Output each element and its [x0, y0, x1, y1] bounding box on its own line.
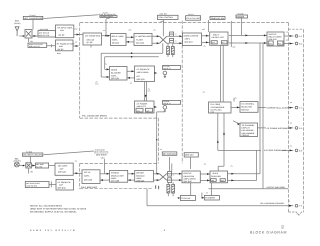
connector pin 2 [295, 42, 298, 45]
connector pin 1 [295, 35, 298, 38]
arrowhead L-K row2 [100, 179, 103, 181]
wire second drop [171, 163, 173, 171]
mic gain label LB1 [162, 152, 177, 155]
arrowhead S2-S1 row2 [127, 77, 130, 79]
svg-text:F 6: F 6 [299, 205, 302, 208]
svg-text:JACK J2: JACK J2 [163, 102, 170, 105]
svg-text:AF POWER: AF POWER [137, 102, 148, 105]
crystal filter XT2 [171, 47, 174, 55]
label box L1 antenna [23, 16, 43, 19]
wire LB1 drop [169, 157, 171, 172]
arrowhead T to jack2 [154, 106, 157, 108]
svg-text:RF SQUELCH AMP: RF SQUELCH AMP [57, 42, 75, 45]
arrowhead N to O [237, 106, 240, 108]
detector block D [183, 33, 202, 46]
wire WB2 to H2 [49, 181, 56, 187]
wire B1 to A [74, 34, 83, 36]
arrowhead BL2 pointer [202, 197, 205, 199]
svg-text:E 5: E 5 [299, 149, 302, 152]
wire O tick up [233, 98, 235, 102]
junction dot mic line [23, 165, 25, 167]
wire mic label drop [104, 159, 106, 174]
arrowhead M-crossover row1 [157, 173, 160, 175]
main unit boundary jog vertical [158, 118, 160, 163]
svg-text:Q33 Q34: Q33 Q34 [58, 187, 67, 190]
crystal filter XT1 [167, 47, 170, 55]
small relay box SB1 [25, 30, 32, 39]
svg-text:TO ANT: TO ANT [29, 14, 36, 17]
svg-text:AND SW R44: AND SW R44 [26, 185, 37, 188]
note block P [240, 123, 258, 137]
arrowheads into D [179, 35, 182, 37]
svg-text:JACK J1: JACK J1 [163, 67, 170, 70]
svg-text:AMPL DRIVE: AMPL DRIVE [184, 178, 197, 181]
mod xtal element lower [168, 178, 172, 183]
connector column outer dashed line [303, 29, 305, 212]
svg-text:D 4: D 4 [299, 127, 302, 130]
connector pin 6 [295, 204, 298, 207]
ch1 antenna change wire [147, 189, 293, 206]
svg-text:IC2: IC2 [137, 75, 140, 78]
pll synthesizer block N [209, 102, 232, 113]
svg-text:Q9 Q10: Q9 Q10 [112, 42, 119, 45]
arrowhead pin4 [290, 127, 293, 129]
wire L3 drop [30, 156, 32, 163]
junction dot A-B line [105, 35, 107, 37]
junction dot bus2 [131, 56, 133, 58]
wire crossover to xtal elements [167, 36, 170, 43]
wire B to C row 2 [126, 41, 134, 43]
bent arrow to BL2 [202, 193, 204, 198]
arrowhead S2 to jack [154, 72, 157, 74]
svg-text:BLANKER: BLANKER [111, 71, 121, 74]
wire mic to SB2 [19, 165, 26, 167]
squiggle tp marks [173, 34, 177, 175]
svg-text:AC POWER DISTRIBUTOR: AC POWER DISTRIBUTOR [267, 127, 292, 130]
wire G to K [73, 172, 82, 174]
af output block T subcell 1 [136, 108, 143, 112]
svg-text:2ND IF AMPL: 2ND IF AMPL [112, 35, 125, 38]
arrowhead into S1 lower [107, 76, 110, 78]
wire K to L row 1 [100, 173, 110, 175]
arrowhead into Q row1 [179, 173, 182, 175]
svg-text:Q37 Q38: Q37 Q38 [111, 180, 119, 183]
vertical V3 [256, 150, 258, 180]
ext sp jack symbol [163, 71, 167, 75]
output block F subcell 2 [278, 41, 284, 45]
wire WB1 to B2 [47, 44, 56, 47]
label box L6 [210, 17, 225, 20]
svg-text:AMPL: AMPL [84, 175, 90, 178]
svg-text:AF SQUELCH: AF SQUELCH [137, 68, 150, 71]
wire row O to pin 3 [258, 107, 293, 109]
arrowhead E-F row1 end [264, 34, 267, 36]
svg-text:TO PA SW: TO PA SW [181, 197, 190, 200]
svg-text:A 1: A 1 [299, 35, 302, 38]
lower unit boundary bottom edge [80, 188, 153, 190]
wire T to jack2 [154, 106, 156, 108]
arrowhead into B1 [34, 35, 37, 37]
svg-text:FIG.2 MOD UNIT: FIG.2 MOD UNIT [81, 186, 98, 189]
svg-text:Q11 Q12: Q11 Q12 [136, 42, 144, 45]
if amplifier block C [134, 34, 152, 46]
svg-text:C 3: C 3 [299, 107, 302, 110]
arrowhead into A [77, 34, 80, 36]
wire N down to R line 2 [218, 113, 224, 171]
svg-text:(FRONT): (FRONT) [14, 160, 22, 163]
crossover down to bus [162, 43, 164, 53]
svg-text:XTAL CONTROL: XTAL CONTROL [159, 16, 174, 19]
svg-text:MIC AMPL: MIC AMPL [58, 164, 68, 167]
arrowhead K-L row1 [107, 173, 110, 175]
label box L3 mic [22, 153, 42, 156]
svg-text:LOW PASS: LOW PASS [39, 28, 49, 31]
deviation block Q [182, 171, 200, 183]
af amplifier block S2 [135, 66, 155, 82]
svg-text:3RD IF: 3RD IF [213, 33, 220, 36]
svg-text:ILS PROP SURVEILLER: ILS PROP SURVEILLER [264, 149, 287, 152]
svg-text:BLOCK DIAGRAM: BLOCK DIAGRAM [250, 230, 287, 234]
pointer diagonal L1 to rf label [44, 15, 99, 19]
wire E down to N double [221, 45, 224, 102]
arrowhead into Q row2 [179, 179, 182, 181]
svg-text:Q1 Q2: Q1 Q2 [59, 33, 65, 36]
arrowhead M-crossover row2 [157, 179, 160, 181]
tp2 stub [28, 168, 30, 174]
xtal element upper [170, 32, 174, 36]
arrowhead into B [107, 35, 110, 37]
driver block M [135, 170, 154, 181]
label box mic gain WB2 [25, 182, 49, 188]
arrowhead S2-T double wire [145, 95, 147, 98]
arrowhead C-B row2 [126, 41, 129, 43]
dark tick marks left of crystals [156, 185, 159, 189]
phone jack label J2 [163, 101, 181, 105]
wire Q to R row 1 [200, 173, 210, 175]
connector pin 4 [295, 127, 298, 130]
phone jack symbol [163, 106, 167, 110]
rf output block R subcell 1 [211, 179, 217, 182]
svg-text:TO METER: TO METER [205, 197, 215, 200]
wire S2 to jack1 [155, 72, 157, 74]
svg-text:Q20 Q21: Q20 Q21 [111, 77, 119, 80]
svg-text:OUTPUT AND VIDEO: OUTPUT AND VIDEO [267, 186, 286, 189]
svg-text:Q4 Q5: Q4 Q5 [58, 48, 64, 51]
wire down to crystal filters [168, 43, 173, 57]
wire Q to R row 2 [200, 179, 210, 181]
small box SB2 [26, 163, 32, 168]
svg-text:DEVIATION: DEVIATION [184, 175, 195, 178]
wire crossover QT [160, 174, 167, 180]
wire M to crossover row 2 [153, 179, 159, 181]
svg-text:1ST MIXER OSC: 1ST MIXER OSC [85, 35, 101, 38]
svg-text:Q13 Q14: Q13 Q14 [185, 41, 194, 44]
svg-text:NOISE LIMITER: NOISE LIMITER [184, 34, 199, 37]
svg-text:CIRCUIT: CIRCUIT [242, 134, 251, 137]
bottom label BL2 [204, 196, 219, 201]
svg-text:DRIVER: DRIVER [136, 172, 144, 175]
rf output block R subcell 2 [220, 179, 225, 182]
mic gain label LB2 [184, 153, 198, 157]
svg-text:Q41 Q42: Q41 Q42 [184, 180, 192, 183]
tp1 stub [28, 38, 30, 42]
svg-text:SIS GROUND. SUPPLY 13.8V DC. N: SIS GROUND. SUPPLY 13.8V DC. NO SIGNAL. [30, 211, 78, 214]
junction dot antenna line [23, 35, 25, 37]
squelch block B2 [56, 40, 74, 51]
arrowhead into L2b [32, 165, 35, 167]
svg-text:TP2: TP2 [30, 170, 33, 173]
arrowhead pin1 [290, 35, 293, 37]
arrowhead B-C row1 [131, 36, 134, 38]
if amp ic block E [210, 32, 228, 45]
arrowhead R out row2 [231, 179, 234, 181]
svg-text:ANT. CHANGEOVER: ANT. CHANGEOVER [24, 17, 43, 20]
svg-text:Q7 Q8: Q7 Q8 [87, 41, 93, 44]
svg-text:IF LIMITER AMPL: IF LIMITER AMPL [136, 35, 153, 38]
bus corner to S1 lower [101, 53, 109, 77]
svg-text:DIMMER: DIMMER [237, 15, 245, 18]
svg-text:MOD ADJ: MOD ADJ [185, 154, 194, 157]
svg-text:B 2: B 2 [299, 43, 302, 46]
svg-text:MODULE: MODULE [136, 174, 145, 177]
svg-text:LED DRIVER: LED DRIVER [242, 129, 255, 132]
wire crossover X1 [160, 36, 167, 43]
arrowhead pin5 [290, 149, 293, 151]
wire R to V3 row [228, 179, 257, 181]
1st af block K [82, 170, 100, 184]
unexplained vertical right of E [230, 21, 232, 47]
svg-text:TO CHANNEL: TO CHANNEL [241, 103, 255, 106]
crystal XB1 [167, 185, 170, 194]
arrowhead E-F row2 mid [245, 42, 248, 44]
wire L2b to G [49, 165, 55, 167]
pointer diagonal L3 [44, 151, 94, 155]
svg-text:NOISE: NOISE [111, 68, 118, 71]
long vertical V1 [259, 43, 261, 174]
crystal XB2 [172, 185, 175, 194]
svg-text:CH.1 ANTENNA CHANGE: CH.1 ANTENNA CHANGE [260, 202, 284, 205]
svg-text:SYNTHESIZER: SYNTHESIZER [211, 106, 225, 109]
wire L4 drop to crossover [162, 20, 164, 37]
arrowhead BL1 pointer [178, 197, 181, 199]
svg-text:AM DET AGC: AM DET AGC [212, 36, 225, 39]
arrowhead Q-R row1 [207, 173, 210, 175]
svg-text:AMPL: AMPL [185, 38, 191, 41]
wire L to M row 2 [128, 179, 135, 181]
svg-text:MIX B: MIX B [213, 172, 219, 175]
wire down to mod crystals [168, 182, 173, 196]
pll unit boundary vertical x182 [181, 21, 183, 164]
wire output and video row [209, 188, 289, 190]
microphone symbol [14, 162, 19, 167]
svg-text:DISPLAY: DISPLAY [242, 127, 251, 130]
wire B2 stub [73, 45, 79, 47]
wire S1 to S2 row 1 [127, 70, 135, 72]
main unit boundary right edge [288, 23, 290, 212]
connector pin 3 [295, 106, 298, 109]
svg-text:FIG.3 PLL UNIT: FIG.3 PLL UNIT [186, 17, 201, 20]
wire N down to pin row [217, 113, 219, 150]
arrowhead ch1 line [289, 205, 292, 207]
arrowhead N-R line2 up [223, 132, 225, 135]
wire SB2 to L2b [31, 165, 35, 167]
svg-text:Q18 Q19: Q18 Q19 [269, 38, 277, 41]
svg-text:ANT MATCH: ANT MATCH [39, 31, 50, 34]
svg-text:AF SQUELCH: AF SQUELCH [58, 181, 71, 184]
1st mixer block A [83, 33, 102, 45]
svg-text:MOD DRIVE: MOD DRIVE [96, 154, 107, 157]
arrowhead into S1 upper [107, 68, 110, 70]
svg-text:PLL FREQ: PLL FREQ [211, 103, 221, 106]
lower unit boundary top edge [80, 162, 157, 164]
svg-text:SPEECH: SPEECH [111, 172, 120, 175]
mic amp block G [55, 163, 73, 175]
svg-text:AND FILTER: AND FILTER [39, 34, 50, 37]
svg-text:COUNTER: COUNTER [211, 175, 221, 178]
label box L2 relay [38, 31, 56, 38]
svg-text:Q26: Q26 [211, 111, 214, 114]
svg-text:Q39 Q40: Q39 Q40 [136, 179, 144, 182]
output block F [267, 32, 284, 46]
label box L2b mic line [35, 163, 48, 168]
svg-text:FILTER: FILTER [136, 39, 143, 42]
label box L7 [236, 15, 248, 18]
svg-text:ADJ: ADJ [161, 20, 165, 23]
main unit boundary bottom edge fig1 [80, 117, 159, 119]
wire F to pin 1 [284, 35, 294, 37]
svg-text:NOTES: ALL VOLTAGES MEAS: NOTES: ALL VOLTAGES MEAS [30, 204, 62, 207]
svg-text:1ST AF: 1ST AF [84, 171, 92, 174]
double wire S2 to T [145, 82, 147, 102]
af output block T subcell 2 [146, 108, 153, 112]
wire M to crossover row 1 [153, 173, 159, 175]
svg-text:URED WITH VTVM FROM POINT INDI: URED WITH VTVM FROM POINT INDI CATED TO … [30, 208, 87, 211]
svg-text:AMPL DRIVE: AMPL DRIVE [137, 71, 150, 74]
svg-text:MIC INPUT CIRCUITS: MIC INPUT CIRCUITS [23, 154, 43, 157]
wire A to B with junction [102, 35, 111, 37]
svg-text:AMPL IC3: AMPL IC3 [137, 105, 146, 108]
af output block T [135, 101, 155, 113]
arrowhead D-E row2 [206, 41, 209, 43]
wire S1 to S2 row 2 [127, 77, 135, 79]
svg-text:TP1: TP1 [30, 40, 33, 43]
junction dot bus1 [131, 52, 133, 54]
rf output block R [210, 171, 228, 183]
arrowhead Q-R row2 [207, 179, 210, 181]
wire L7 drop [241, 18, 243, 35]
arrowhead E-F row2 end [264, 42, 267, 44]
block E subcell 2 [221, 41, 227, 44]
svg-text:OUTPUT: OUTPUT [184, 172, 193, 175]
wire A bottom stub [90, 45, 92, 48]
svg-text:SAMS 191 RC2577B: SAMS 191 RC2577B [30, 229, 76, 232]
arrowhead N line1 up [217, 140, 219, 143]
arrowhead pin3 [290, 107, 293, 109]
arrowhead D-E row1 [206, 35, 209, 37]
svg-text:Q22 Q23: Q22 Q23 [137, 78, 145, 81]
wire xtal elements to D [174, 36, 183, 43]
wire mod elements to Q row 1 [172, 173, 182, 175]
svg-text:FIG. 1 MAIN UNIT (PART): FIG. 1 MAIN UNIT (PART) [82, 115, 107, 118]
connector column top dashed edge [289, 28, 304, 30]
label box L4 xtal osc [158, 15, 179, 19]
wire Q down to BL1 [190, 183, 192, 196]
mod xtal element upper [168, 172, 172, 177]
junction dot jack2 drop [156, 139, 157, 140]
wire label L1 drop [32, 20, 34, 30]
arrowhead P callout [237, 123, 240, 125]
svg-text:TONE OSC SW: TONE OSC SW [211, 17, 225, 20]
arrowhead S1-S2 row1 [132, 70, 135, 72]
arrowhead M-L row2 [128, 179, 131, 181]
bus 2 corner to S1 upper [105, 57, 159, 70]
arrowhead E-F row1 mid [245, 34, 248, 36]
wire N to O [231, 106, 240, 108]
xtal element lower [170, 38, 174, 43]
svg-text:CARRIER NULL ADJUST: CARRIER NULL ADJUST [267, 106, 291, 109]
svg-text:RF INPUT AMPL: RF INPUT AMPL [58, 26, 74, 29]
wire rf label drop [105, 19, 107, 36]
arrowhead G to K [76, 172, 79, 174]
wire down to BL2 [210, 183, 212, 196]
svg-text:TO CHANNEL: TO CHANNEL [242, 124, 256, 127]
label box RF power cluster [100, 16, 117, 18]
lower unit boundary left edge [79, 163, 81, 188]
squelch control block H2 [56, 180, 74, 191]
wire pin5 row from N vertical [218, 149, 293, 151]
svg-text:(MOD CIRCUITS): (MOD CIRCUITS) [94, 151, 109, 154]
wire P callout diagonal [233, 121, 240, 124]
svg-text:AMPL: AMPL [111, 74, 117, 77]
arrowhead B2 stub [76, 45, 79, 47]
wire D to E row 2 [202, 41, 210, 43]
wire mod elements to Q row 2 [172, 179, 182, 181]
antenna symbol [15, 27, 19, 36]
main unit dash-dot boundary top edge [80, 22, 289, 24]
wire D to E row 1 [202, 35, 210, 37]
long vertical V2 [262, 43, 264, 189]
arrowhead L-M row1 [132, 173, 135, 175]
wire L6 drop [208, 20, 210, 32]
svg-text:AMPL: AMPL [112, 39, 118, 42]
wire F to pin 2 [284, 43, 294, 45]
bottom label BL1 [180, 196, 195, 201]
wire LB2 drop [190, 157, 192, 169]
arrowhead pin2 [290, 43, 293, 45]
svg-text:AND VOL R1: AND VOL R1 [29, 45, 40, 48]
wire B to C row 1 [126, 36, 134, 38]
long bus under chain [101, 52, 163, 54]
wire E to F row 2 [229, 42, 267, 44]
block E subcell 1 [211, 41, 217, 44]
connector pin 5 [295, 149, 298, 152]
connector column bottom notch [289, 212, 304, 215]
ext sp jack label J1 [163, 66, 181, 70]
svg-text:(REAR): (REAR) [14, 22, 21, 25]
speech amp block B1 [56, 25, 74, 38]
wire R to V1 row [228, 173, 261, 175]
label box volume control WB1 [28, 43, 47, 47]
svg-text:MIC GAIN ADJ: MIC GAIN ADJ [163, 153, 176, 156]
svg-text:SWITCH: SWITCH [241, 108, 249, 111]
svg-text:Q35 Q36: Q35 Q36 [84, 178, 92, 181]
wire L to M row 1 [128, 173, 135, 175]
arrowheads into crossover [157, 35, 160, 37]
label box L5 [186, 16, 201, 21]
output block F subcell 1 [268, 41, 273, 45]
wire C to crossover [152, 36, 160, 43]
arrowhead R out row1 [231, 173, 234, 175]
